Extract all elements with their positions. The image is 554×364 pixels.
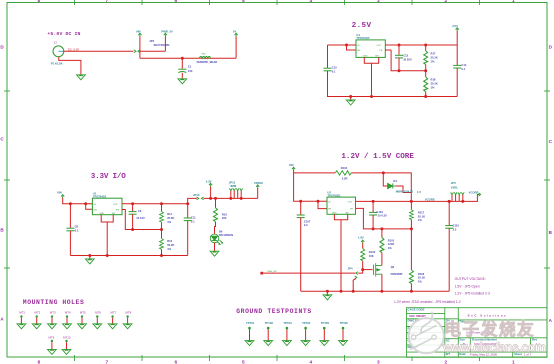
svg-text:100: 100: [188, 69, 193, 73]
svg-text:25.5K: 25.5K: [167, 216, 174, 220]
junction R118 bottom: [410, 290, 413, 293]
svg-text:JTAG_EN: JTAG_EN: [267, 270, 277, 273]
wire core bottom rail: [301, 290, 450, 292]
svg-text:CAGE CODE: CAGE CODE: [408, 307, 425, 311]
wire C10 to bottom rail: [328, 71, 351, 97]
capacitor C1: [181, 58, 183, 68]
svg-text:B: B: [0, 228, 4, 233]
wire EN jog: [86, 204, 93, 210]
svg-text:MT8: MT8: [125, 310, 131, 314]
capacitor C104: [372, 201, 374, 212]
svg-text:VCORE: VCORE: [469, 190, 479, 194]
junction diode bypass tap: [382, 171, 385, 174]
svg-text:30.1K: 30.1K: [431, 82, 438, 86]
junction gate node: [361, 268, 364, 271]
svg-text:D4: D4: [393, 179, 397, 183]
svg-text:A: A: [549, 318, 553, 323]
power flag 3.3V: [210, 186, 212, 198]
junction U1 gnd bottom: [106, 254, 109, 257]
U1 pin names: [94, 204, 120, 215]
junction EN tap core: [317, 200, 320, 203]
resistor R16: [215, 198, 217, 207]
wire U1 FB node: [122, 210, 162, 230]
jumper JP2 pin 2: [138, 50, 140, 53]
svg-text:MT5: MT5: [80, 310, 86, 314]
svg-text:1.2V when JTAG enabled - JP5 I: 1.2V when JTAG enabled - JP5 Installed 1…: [394, 300, 461, 304]
svg-text:FDN358P: FDN358P: [391, 272, 403, 276]
svg-text:OUT: OUT: [348, 201, 353, 203]
junction C1 tap: [181, 57, 184, 60]
header JP13 pins: [229, 188, 242, 190]
regulator U2: [327, 197, 356, 214]
junction ground tap 3.3V: [88, 254, 91, 257]
svg-text:1.8V: 1.8V: [358, 236, 364, 240]
wire VIN stub to input rail: [63, 198, 93, 204]
svg-text:JP4: JP4: [348, 266, 353, 270]
svg-text:MT3: MT3: [50, 310, 56, 314]
ground 2.5V section: [350, 97, 352, 100]
svg-text:MT6: MT6: [95, 310, 101, 314]
junction C110 top: [448, 200, 451, 203]
svg-text:1%: 1%: [418, 280, 422, 284]
svg-text:C6: C6: [138, 209, 142, 213]
wire end dot JTAG_EN: [260, 272, 263, 275]
ground core section: [326, 291, 328, 294]
capacitor C110: [448, 201, 450, 225]
svg-text:R17: R17: [431, 52, 436, 56]
wire right rail to C14: [456, 31, 458, 65]
jumper JP10 pin 1: [197, 197, 199, 200]
wire left rail down: [294, 173, 327, 201]
U4 pin stubs: [352, 45, 392, 50]
junction Q2 source bottom: [380, 290, 383, 293]
svg-text:+5.0V DC IN: +5.0V DC IN: [47, 31, 80, 37]
svg-text:C107: C107: [304, 219, 311, 223]
svg-text:1%: 1%: [431, 86, 435, 90]
svg-text:FB: FB: [350, 209, 353, 211]
svg-text:R118: R118: [418, 272, 425, 276]
svg-text:0.1: 0.1: [461, 67, 465, 71]
junction R12 bottom: [160, 254, 163, 257]
junction R17 top: [424, 44, 427, 47]
svg-text:GND: GND: [363, 56, 368, 58]
mounting hole MT8: [123, 310, 132, 328]
wire 2.5V output rail: [390, 44, 458, 46]
junction C12 top: [398, 44, 401, 47]
wire 3.3V bottom rail: [70, 255, 187, 257]
wire U2 output rail VCORE: [356, 200, 463, 202]
svg-text:TP104: TP104: [302, 321, 311, 325]
svg-text:0.1: 0.1: [75, 228, 79, 232]
wire lower 5V rail: [140, 57, 236, 59]
svg-text:3: 3: [377, 0, 380, 4]
svg-text:8: 8: [38, 360, 41, 364]
junction R17/R18 node: [424, 69, 427, 72]
wire U4 FB node: [391, 50, 426, 71]
junction EN tap: [345, 44, 348, 47]
junction core ground tap: [326, 290, 329, 293]
svg-text:1.2V - JP5 Installed 2-3: 1.2V - JP5 Installed 2-3: [455, 291, 490, 295]
svg-text:R16: R16: [222, 212, 227, 216]
junction JP5 right: [461, 200, 464, 203]
connector J2 barrel jack: [53, 46, 64, 57]
svg-text:2.5V: 2.5V: [352, 22, 372, 30]
junction R16 tap: [214, 197, 217, 200]
ground 3.3V section: [89, 256, 91, 259]
svg-text:MT4: MT4: [65, 310, 71, 314]
svg-text:2.2: 2.2: [304, 223, 308, 227]
svg-text:FERRITE_BEAD: FERRITE_BEAD: [197, 60, 218, 64]
U4 ground pins U-link: [364, 57, 378, 96]
watermark logo circle: [409, 312, 444, 354]
junction C12 bottom: [398, 69, 401, 72]
power flag VDDIO: [256, 185, 259, 188]
svg-text:VSEL: VSEL: [451, 185, 459, 189]
wire 2.5V bottom rail: [328, 96, 458, 98]
wire JP4 pin2 to bottom rail: [353, 279, 356, 292]
mounting hole MT1: [17, 310, 26, 328]
power flag PWR_5V: [164, 33, 167, 36]
svg-text:VIN: VIN: [289, 163, 294, 167]
svg-text:1: 1: [512, 360, 515, 364]
testpoint TP104: [301, 321, 311, 346]
junction C11 top: [186, 202, 189, 205]
svg-text:4: 4: [310, 360, 313, 364]
resistor R104 (series): [335, 171, 351, 175]
svg-text:7: 7: [106, 360, 109, 364]
svg-text:R12: R12: [167, 239, 172, 243]
mounting hole MT2: [32, 310, 41, 328]
svg-text:10K: 10K: [369, 254, 374, 258]
capacitor C8: [69, 204, 71, 228]
capacitor C107: [300, 201, 302, 214]
U2 pin names: [328, 201, 353, 214]
svg-text:3.3V I/O: 3.3V I/O: [91, 173, 126, 181]
testpoint TP106: [339, 321, 349, 346]
svg-text:ON GREEN: ON GREEN: [219, 233, 233, 237]
svg-text:NR: NR: [112, 213, 116, 215]
wire PWR_5V flag down to jumper wire: [164, 36, 166, 51]
svg-text:TPS76301: TPS76301: [327, 193, 341, 197]
svg-text:4MM: 4MM: [230, 184, 237, 188]
capacitor C12: [398, 45, 400, 55]
svg-text:NR: NR: [375, 56, 379, 58]
svg-text:10 25V: 10 25V: [403, 58, 412, 62]
svg-text:C11: C11: [191, 216, 196, 220]
power flag VCORE arrow: [477, 193, 480, 196]
junction C6 top: [131, 202, 134, 205]
svg-text:3.3V: 3.3V: [206, 180, 212, 184]
junction JP5 left: [448, 200, 451, 203]
svg-text:C: C: [0, 137, 4, 142]
svg-text:IN: IN: [94, 204, 97, 206]
svg-text:R117: R117: [418, 211, 425, 215]
svg-text:TP102: TP102: [265, 321, 274, 325]
svg-text:TPS76433: TPS76433: [93, 194, 107, 198]
jumper JP10 pin 2: [201, 197, 203, 200]
svg-text:IN: IN: [357, 45, 360, 47]
wire left rail to C10: [327, 45, 329, 68]
notes OUTPUT VOLTAGE: [394, 277, 490, 304]
U2 ground pins U-link: [334, 214, 347, 291]
wire JTAG_EN: [262, 272, 356, 274]
svg-text:3: 3: [377, 360, 380, 364]
svg-text:SoC Solutions: SoC Solutions: [468, 313, 506, 317]
svg-text:1.5: 1.5: [417, 190, 421, 194]
svg-text:1%: 1%: [431, 60, 435, 64]
svg-text:1.5V - JP5 Open: 1.5V - JP5 Open: [455, 285, 480, 289]
capacitor C14: [453, 65, 461, 68]
svg-text:MBR0520LT1: MBR0520LT1: [396, 189, 414, 193]
svg-text:2: 2: [445, 360, 448, 364]
svg-text:MT9: MT9: [49, 335, 55, 339]
junction R101 top: [380, 227, 383, 230]
svg-text:PWR_5V: PWR_5V: [161, 30, 173, 34]
junction ground tap: [349, 95, 352, 98]
wire EN jog core: [318, 201, 327, 208]
svg-text:C104: C104: [376, 210, 383, 214]
svg-text:J2: J2: [54, 41, 57, 45]
wire 3.3V rail after jumper: [204, 197, 258, 199]
svg-text:25.1K: 25.1K: [418, 214, 425, 218]
testpoint TP105: [320, 321, 330, 346]
svg-text:VIN: VIN: [136, 30, 141, 34]
svg-text:OUT: OUT: [377, 45, 382, 47]
svg-text:6: 6: [175, 0, 178, 4]
junction C104 bottom: [372, 227, 375, 230]
jumper JP2 pin 1: [134, 50, 136, 53]
LED D6: [210, 234, 223, 245]
junction R18 bottom: [424, 95, 427, 98]
svg-text:R102: R102: [369, 250, 376, 254]
junction JP13 right: [240, 197, 243, 200]
svg-text:1%: 1%: [388, 246, 392, 250]
mounting hole MT3: [48, 310, 57, 328]
wire top rail right of R104: [351, 173, 411, 202]
svg-text:R104: R104: [341, 166, 348, 170]
resistor R12: [161, 230, 163, 239]
svg-text:VCORE: VCORE: [425, 197, 435, 201]
junction FB/R118 node: [410, 227, 413, 230]
svg-text:25.1K: 25.1K: [418, 276, 425, 280]
junction diode down / R117: [410, 200, 413, 203]
svg-text:MT2: MT2: [35, 310, 41, 314]
svg-text:1%: 1%: [418, 218, 422, 222]
svg-text:1%: 1%: [167, 247, 171, 251]
svg-text:10 6.3V: 10 6.3V: [378, 214, 387, 218]
svg-text:5V: 5V: [233, 30, 237, 34]
svg-text:JP2: JP2: [149, 39, 154, 43]
svg-text:220: 220: [222, 216, 227, 220]
junction R11 top: [160, 202, 163, 205]
svg-text:C8: C8: [75, 224, 79, 228]
testpoint TP103: [283, 321, 293, 346]
power flag 5V: [235, 33, 238, 36]
wire rail end to VCORE flag: [463, 195, 479, 202]
wire rail end up to VDDIO flag: [257, 188, 259, 198]
power flag 2.5V output: [456, 28, 459, 31]
svg-text:MT10: MT10: [63, 335, 71, 339]
svg-text:C1: C1: [188, 65, 192, 69]
resistor R17: [425, 45, 427, 51]
wire VIN stub to top rail: [294, 170, 336, 173]
capacitor C10: [324, 68, 332, 71]
svg-text:OUT: OUT: [113, 204, 118, 206]
resistor R102: [362, 243, 364, 248]
wire gate node to JP4 pin1: [358, 270, 362, 274]
svg-text:R18: R18: [431, 78, 436, 82]
junction JP13 left: [229, 197, 232, 200]
svg-text:2.2R: 2.2R: [342, 177, 348, 181]
junction U2 gnd bottom: [340, 290, 343, 293]
svg-text:JP10: JP10: [193, 193, 200, 197]
svg-text:2.2: 2.2: [453, 227, 457, 231]
ground at LED: [210, 251, 219, 256]
svg-text:GND: GND: [332, 212, 337, 214]
jumper JP4 pin 1: [356, 272, 358, 275]
wire C14 to bottom rail: [456, 68, 458, 97]
junction R11/R12 node: [160, 228, 163, 231]
wire jack sleeve to ground: [59, 57, 81, 75]
mounting hole MT5: [78, 310, 87, 328]
svg-text:MT7: MT7: [110, 310, 116, 314]
border zone numbers bottom: [38, 360, 516, 364]
mounting hole MT10: [62, 335, 71, 354]
wire U1 output rail: [122, 203, 188, 205]
wire gate node to Q2 gate: [363, 269, 373, 271]
wire VIN flag down through jumper node to lower rail: [139, 36, 141, 58]
svg-text:6: 6: [175, 360, 178, 364]
title block frame: [407, 308, 548, 358]
svg-text:10 16V: 10 16V: [136, 216, 145, 220]
resistor R117: [410, 201, 412, 209]
svg-text:FB: FB: [380, 50, 383, 52]
svg-text:P1 KLDX: P1 KLDX: [51, 62, 63, 66]
svg-text:MT1: MT1: [19, 310, 25, 314]
mounting hole MT4: [63, 310, 72, 328]
wire output jog up to 3.3V rail: [188, 198, 197, 203]
svg-text:C110: C110: [453, 224, 460, 228]
svg-text:56.2K: 56.2K: [167, 243, 174, 247]
junction 3.3V flag tap: [209, 197, 212, 200]
svg-text:SHUTDOWN: SHUTDOWN: [154, 43, 170, 47]
svg-text:R101: R101: [388, 238, 395, 242]
power flag VIN: [138, 33, 141, 36]
svg-text:TP101: TP101: [246, 321, 255, 325]
regulator U1: [92, 198, 122, 215]
svg-text:EN: EN: [328, 209, 331, 211]
svg-text:FB: FB: [116, 209, 119, 211]
svg-text:D: D: [0, 45, 4, 50]
svg-text:NR: NR: [345, 212, 349, 214]
testpoint TP102: [264, 321, 274, 346]
svg-text:R11: R11: [167, 212, 172, 216]
svg-text:C14: C14: [461, 63, 466, 67]
svg-text:OUTPUT VOLTAGE:: OUTPUT VOLTAGE:: [455, 277, 486, 281]
regulator U4: [356, 40, 385, 58]
svg-text:A: A: [0, 317, 4, 322]
svg-text:www.elecfans.com: www.elecfans.com: [442, 340, 546, 354]
svg-text:C10: C10: [332, 65, 337, 69]
wire R16 to LED: [215, 222, 216, 235]
mounting hole MT9: [48, 335, 57, 354]
svg-text:GROUND TESTPOINTS: GROUND TESTPOINTS: [236, 308, 311, 315]
junction JP4 bottom: [352, 290, 355, 293]
jumper JP5 pins: [451, 192, 465, 194]
junction C104 top: [372, 200, 375, 203]
wire U2 FB pin to FB line: [356, 208, 412, 229]
svg-text:VDDIO: VDDIO: [254, 181, 264, 185]
mounting hole MT6: [93, 310, 102, 328]
svg-text:MOUNTING HOLES: MOUNTING HOLES: [23, 299, 84, 306]
MOSFET Q2: [374, 263, 382, 276]
svg-text:8: 8: [38, 0, 41, 4]
wire diode bypass: [383, 173, 411, 193]
wire jack to JP2 pin1: [64, 50, 133, 52]
diode D4: [387, 183, 396, 188]
U1 ground pins U-link: [101, 215, 113, 256]
wire LED to ground: [214, 243, 216, 251]
mounting hole MT7: [108, 310, 117, 328]
svg-text:TP105: TP105: [321, 321, 330, 325]
svg-text:TP106: TP106: [340, 321, 349, 325]
svg-text:GND: GND: [99, 213, 104, 215]
svg-text:VIN: VIN: [57, 190, 62, 194]
svg-text:0.1: 0.1: [332, 69, 336, 73]
junction U4 gnd: [370, 95, 373, 98]
svg-text:7: 7: [106, 0, 109, 4]
border zone letters: [0, 45, 552, 324]
svg-text:30.1K: 30.1K: [431, 56, 438, 60]
svg-text:JP5: JP5: [451, 181, 456, 185]
U4 pin names: [357, 45, 383, 58]
svg-text:EN: EN: [94, 209, 97, 211]
svg-text:C: C: [549, 139, 553, 144]
svg-text:4: 4: [310, 0, 313, 4]
svg-text:C12: C12: [403, 54, 408, 58]
header JP13 pin stubs: [231, 191, 241, 199]
ground at C1: [178, 79, 187, 84]
border zone numbers top (clipped): [38, 0, 516, 4]
svg-text:电子发烧友: 电子发烧友: [444, 319, 535, 339]
svg-text:EN: EN: [357, 50, 360, 52]
svg-text:B: B: [549, 230, 553, 235]
jumper JP5 pin stubs: [452, 195, 463, 202]
junction EN tap: [84, 202, 87, 205]
testpoint TP101: [245, 321, 255, 346]
junction C107 tap: [299, 200, 302, 203]
capacitor C6: [132, 204, 134, 211]
svg-text:D: D: [549, 45, 553, 50]
svg-text:FB2: FB2: [202, 53, 207, 55]
svg-text:0.1: 0.1: [191, 219, 195, 223]
junction C8 tap: [69, 202, 72, 205]
svg-text:Q2: Q2: [391, 265, 395, 269]
svg-text:1.2V / 1.5V CORE: 1.2V / 1.5V CORE: [341, 153, 414, 161]
svg-text:IN: IN: [328, 201, 331, 203]
resistor R101: [381, 229, 383, 238]
wire JP2 pin2 to PWR vertical: [140, 50, 165, 52]
svg-text:D6: D6: [219, 229, 223, 233]
svg-text:121R: 121R: [388, 242, 394, 246]
junction C6 bottom: [131, 228, 134, 231]
title block small field labels: [408, 307, 538, 356]
svg-text:1: 1: [512, 0, 515, 4]
jumper JP4 pin 2: [355, 276, 357, 279]
wire Q2 drain/source: [381, 262, 383, 292]
svg-text:TPS76425: TPS76425: [356, 36, 370, 40]
svg-text:1%: 1%: [167, 220, 171, 224]
